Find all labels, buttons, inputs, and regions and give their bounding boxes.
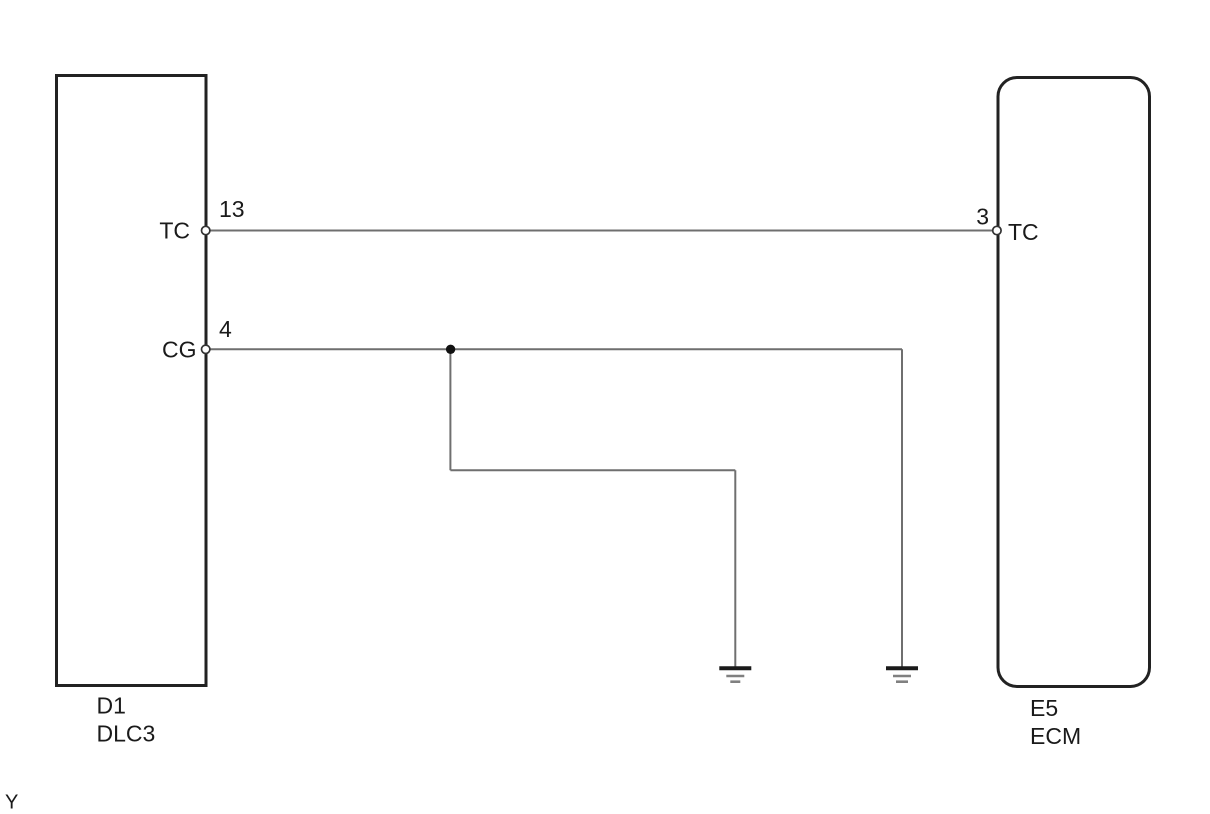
- svg-text:Y: Y: [5, 792, 18, 814]
- wire: TC net from DLC3 pin 13 to ECM pin 3: [206, 230, 997, 232]
- wire: branch horizontal: [450, 469, 735, 471]
- svg-text:TC: TC: [1008, 219, 1039, 245]
- svg-text:D1: D1: [97, 693, 126, 719]
- junction node on CG net: [446, 345, 455, 354]
- svg-text:E5: E5: [1030, 695, 1058, 721]
- svg-text:CG: CG: [162, 337, 197, 363]
- pin circle: DLC3 pin 4 (CG): [202, 345, 210, 353]
- svg-text:13: 13: [219, 196, 245, 222]
- svg-text:DLC3: DLC3: [97, 721, 156, 747]
- wire: CG net vertical drop to ground near ECM: [901, 349, 903, 667]
- ground symbol: right: [886, 668, 918, 681]
- pin circle: ECM pin 3 (TC): [993, 226, 1001, 234]
- wire: branch vertical from junction: [449, 349, 451, 470]
- ground symbol: left: [719, 668, 751, 681]
- connector D1 (DLC3) body: [57, 76, 207, 686]
- svg-text:3: 3: [976, 204, 989, 230]
- connector E5 (ECM) body: [998, 78, 1150, 687]
- pin circle: DLC3 pin 13 (TC): [202, 226, 210, 234]
- svg-text:4: 4: [219, 316, 232, 342]
- svg-text:ECM: ECM: [1030, 723, 1081, 749]
- wire: CG net horizontal from DLC3 pin 4: [206, 348, 902, 350]
- wire: branch vertical drop to left ground: [734, 470, 736, 667]
- svg-text:TC: TC: [159, 218, 190, 244]
